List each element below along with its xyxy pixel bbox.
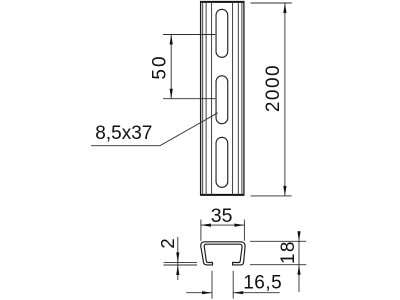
svg-text:50: 50 [149,54,170,79]
dimension 18: extension line top [250,240,306,242]
dimension 16,5: extension line right [232,271,234,299]
dimension 18: arrow down to top [297,231,300,241]
dimension 2: extension line top [164,261,198,263]
rail left fold line 3 [211,1,213,196]
dimension 50: arrow down [170,89,173,99]
svg-text:2: 2 [157,238,178,248]
dimension 50: arrow up [170,35,173,45]
dimension 35: dimension line [201,224,245,226]
slot 1 [216,9,228,57]
dimension 2: arrow up to gap [176,265,179,275]
dimension 16,5: extension line left [211,271,213,299]
dimension 16,5: dimension line left segment [186,292,212,294]
dimension 18: dimension line [298,232,300,292]
dimension 35: arrow right [234,224,244,227]
rail left fold line 2 [205,1,207,196]
svg-text:16,5: 16,5 [243,273,282,294]
slot 2 [216,76,228,124]
slot 3 [216,137,228,187]
svg-text:8,5x37: 8,5x37 [95,123,152,144]
dimension 16,5: arrow left to right ext [233,291,243,294]
rail left outer edge [200,1,202,196]
dimension 2: extension line bottom [164,264,198,266]
cross-section profile [201,242,245,265]
rail left fold line 1 [202,1,204,196]
label 8,5x37: leader line [91,113,218,146]
dimension 2000: extension line top [251,2,292,4]
svg-text:35: 35 [211,205,233,227]
dimension 16,5: arrow right to left ext [202,291,212,294]
rail right fold line 3 [232,1,234,196]
dimension 35: extension line left [200,220,202,241]
dimension 2000: arrow down [283,186,286,196]
dimension 2000: arrow up [283,3,286,13]
dimension 50: extension line top [163,34,215,36]
svg-text:18: 18 [278,240,299,264]
dimension 2: dimension line [177,237,179,280]
rail bottom edge [200,194,244,196]
dimension 18: extension line bottom [250,264,306,266]
rail right outer edge [243,1,245,196]
rail top edge [200,1,244,3]
dimension 2: arrow down to gap [176,252,179,262]
dimension 50: extension line bottom [163,98,215,100]
dimension 18: arrow up to bottom [297,265,300,275]
dimension 2000: extension line bottom [251,195,292,197]
dimension 16,5: dimension line right segment [233,292,280,294]
dimension 50: dimension line [170,35,172,99]
dimension 2000: dimension line [284,3,286,196]
svg-text:2000: 2000 [263,64,284,112]
dimension 35: arrow left [201,224,211,227]
rail right fold line 1 [241,1,243,196]
rail right fold line 2 [237,1,239,196]
dimension 35: extension line right [243,220,245,241]
